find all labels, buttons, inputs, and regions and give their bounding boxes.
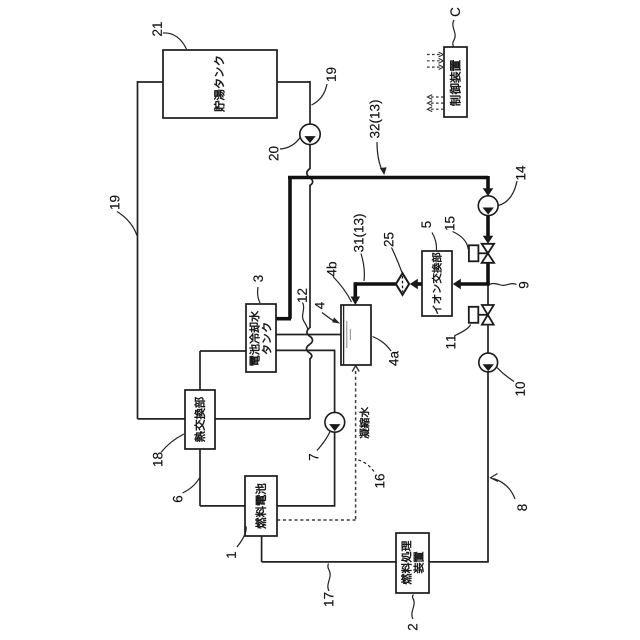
leader 21	[163, 33, 187, 49]
leader 18	[161, 434, 184, 453]
label 19 left	[110, 196, 120, 209]
label 10	[515, 382, 525, 395]
leader 4b	[333, 277, 352, 303]
leader 7	[317, 431, 330, 451]
strainer diamond 25	[396, 273, 409, 295]
label 2	[408, 624, 417, 630]
text 燃料電池	[255, 484, 266, 529]
leader 9 squiggle	[490, 284, 517, 286]
leader 8 with open arrow	[493, 479, 515, 500]
dashed control output line 1 from controller	[431, 96, 444, 98]
arrowhead leader 4	[332, 317, 340, 323]
thick pipe into battery-tank right edge	[276, 317, 291, 321]
fuel cell box 1	[245, 476, 277, 536]
label 31(13)	[354, 214, 367, 252]
wire 17 to fuel-processor left edge	[262, 561, 397, 563]
label 16	[375, 474, 385, 487]
ion exchange box 5	[422, 251, 452, 316]
text イオン交換部	[432, 253, 442, 314]
leader 17 squiggle	[328, 564, 330, 592]
text 電池冷却水タンク	[249, 311, 271, 365]
pump 20	[300, 124, 320, 144]
arrowhead output 2	[427, 101, 432, 106]
label 32(13)	[370, 100, 383, 138]
hot water storage tank box 21	[163, 50, 277, 118]
label C	[450, 8, 460, 17]
dashed condensate line vertical	[355, 371, 357, 520]
fuel processing device box 2	[396, 533, 429, 593]
control device box C	[444, 47, 467, 117]
arrowhead into valve 15	[483, 236, 494, 244]
wire 12 battery-tank right to tank4a left	[276, 334, 341, 336]
arrowhead input 1	[439, 52, 444, 57]
leader 31(13)	[361, 254, 364, 282]
label 9	[519, 282, 529, 288]
dashed sensor input line 3 to controller	[427, 66, 440, 68]
thick pipe into pump 14	[486, 176, 490, 190]
arrowhead into diamond 25	[410, 279, 418, 290]
leader 11	[455, 325, 471, 336]
pump 14	[478, 196, 498, 216]
label 6	[173, 496, 183, 502]
tank 4a water mark 2	[349, 329, 351, 340]
label 11	[446, 335, 455, 348]
label 1	[227, 552, 236, 558]
label 17	[324, 593, 333, 606]
text 制御装置	[450, 60, 461, 105]
label 19 right	[326, 68, 336, 81]
dashed control output line 3 from controller	[431, 108, 444, 110]
dashed condensate line horizontal to fuel cell	[277, 519, 356, 521]
leader 5	[432, 233, 437, 251]
dashed sensor input line 2 to controller	[427, 60, 440, 62]
leader 16 dashed	[358, 460, 374, 472]
text 凝縮水	[360, 407, 370, 438]
arrowhead leader 32(13)	[380, 167, 387, 175]
open arrowhead leader 8	[491, 474, 499, 482]
pump 10	[479, 353, 498, 372]
label 7	[309, 454, 318, 460]
wire hot-water return down with crossover waves	[307, 185, 313, 419]
label 8	[517, 504, 527, 510]
thick pipe pump 14 to valve 15	[486, 215, 490, 237]
wire down to pump 20	[309, 81, 311, 124]
wire heat-exchanger bottom down	[199, 449, 201, 506]
leader 10	[497, 368, 514, 382]
wire pump 20 down with crossover wave at thick line	[307, 145, 313, 186]
open arrowhead into tank 4a bottom	[352, 366, 359, 372]
wire hot-water loop: tank21 left to long left line	[138, 81, 165, 83]
wire to battery-tank left edge	[200, 350, 246, 352]
label 4b	[327, 262, 337, 276]
wire to fuel-cell left edge	[200, 505, 245, 507]
label 5	[422, 221, 431, 227]
pump 7	[325, 412, 345, 432]
label 4a	[389, 351, 398, 366]
arrowhead into tank 4b	[351, 297, 361, 306]
leader 15	[453, 232, 469, 250]
leader 6	[183, 478, 200, 493]
leader 3	[258, 287, 260, 303]
wire 8 fuel-processor right then up	[429, 372, 488, 562]
leader 20	[280, 137, 301, 149]
wire left line into heat-exchanger left edge	[138, 418, 186, 420]
wire pump 10 up to valve 11	[487, 325, 489, 353]
label 12	[297, 289, 306, 302]
leader 19 right	[312, 84, 328, 105]
text 貯湯タンク	[214, 57, 224, 112]
thick pipe corner to ion-exchanger right edge	[459, 282, 490, 286]
arrowhead output 1	[427, 95, 432, 100]
leader 14	[499, 181, 518, 206]
thick pipe 31(13) diamond to corner	[355, 282, 396, 286]
text 燃料処理装置	[401, 541, 423, 584]
condensed water tank 4a	[341, 305, 371, 365]
wire into heat-exchanger right edge	[215, 418, 310, 420]
thick pipe 32(13) top horizontal	[288, 176, 488, 180]
wire heat-exchanger top up	[199, 351, 201, 390]
leader 4a	[373, 337, 392, 352]
arrowhead input 3	[439, 65, 444, 70]
wire pump 7 down	[277, 432, 335, 506]
label 14	[516, 166, 525, 180]
arrowhead into ion-exchanger	[453, 279, 461, 290]
label 4	[315, 302, 324, 309]
three-way valve 15 with actuator	[469, 244, 494, 263]
thick pipe valve 15 down to corner	[486, 263, 490, 284]
wire fuel-cell bottom down	[261, 536, 263, 562]
battery cooling water tank box 3	[246, 304, 276, 372]
dashed sensor input line 1 to controller	[427, 54, 440, 56]
wire battery-tank right to pump 7 branch	[276, 350, 335, 412]
tank 4a inner wall line	[343, 305, 345, 365]
arrowhead input 2	[439, 58, 444, 63]
wire tank21 right exit	[276, 81, 310, 83]
label 15	[445, 217, 454, 230]
text 熱交換部	[195, 397, 205, 441]
tank 4a water mark 1	[346, 321, 348, 348]
dashed control output line 2 from controller	[431, 102, 444, 104]
valve 11 with actuator	[469, 305, 494, 325]
thick pipe down-left vertical	[288, 176, 292, 319]
heat exchange box 18	[185, 390, 215, 449]
leader 19 left	[117, 212, 137, 236]
leader 4 with arrow	[322, 313, 335, 322]
leader 12 squiggle	[303, 303, 309, 331]
label 20	[269, 147, 279, 161]
label 21	[152, 22, 161, 36]
wire long left line 19 down	[137, 81, 139, 419]
thick pipe ion-exchanger left to diamond	[415, 282, 422, 286]
leader 2 squiggle	[412, 595, 414, 620]
leader C squiggle	[453, 20, 455, 47]
leader 25	[392, 248, 403, 273]
label 25	[384, 233, 394, 247]
thick pipe 31(13) down to tank 4b	[353, 282, 357, 298]
arrowhead into pump 14	[483, 188, 494, 196]
leader 1	[237, 526, 246, 547]
wire valve 11 up to thick junction	[487, 283, 489, 306]
leader 32(13) with arrow	[377, 142, 383, 171]
label 3	[253, 275, 263, 281]
label 18	[153, 453, 163, 466]
arrowhead output 3	[427, 107, 432, 112]
